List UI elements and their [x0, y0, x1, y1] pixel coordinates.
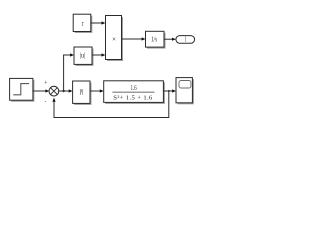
PI controller block — [73, 81, 92, 105]
svg-text:1.6: 1.6 — [131, 85, 137, 92]
abs block — [74, 47, 94, 66]
wire branch up to abs — [64, 53, 74, 91]
wire PI to transfer fcn — [90, 89, 104, 92]
step source block — [10, 78, 35, 101]
wire product to integrator — [122, 37, 146, 40]
svg-text:-: - — [45, 99, 47, 106]
svg-text:S²+ 1.5 + 1.6: S²+ 1.5 + 1.6 — [113, 95, 153, 102]
svg-text:×: × — [112, 36, 116, 44]
wire TF to scope — [163, 89, 176, 92]
svg-text:|u|: |u| — [80, 52, 85, 60]
wire integrator to outport — [164, 38, 176, 41]
scope block — [176, 78, 194, 105]
product block — [106, 16, 124, 62]
feedback wire — [52, 91, 168, 118]
wire abs to product — [92, 53, 105, 56]
svg-text:PI: PI — [80, 90, 84, 97]
integrator block — [146, 31, 166, 48]
sum junction — [49, 86, 59, 96]
constant r block — [73, 14, 92, 33]
wire step to sum — [33, 89, 49, 92]
svg-text:1: 1 — [185, 36, 187, 43]
branch node on error wire — [62, 90, 64, 92]
svg-text:+: + — [44, 80, 47, 87]
feedback branch node — [168, 90, 170, 92]
wire r to product — [91, 21, 106, 24]
svg-text:1/s: 1/s — [151, 36, 157, 44]
wire sum to PI — [59, 89, 73, 92]
outport oval — [176, 36, 195, 44]
transfer fcn block — [104, 81, 165, 104]
